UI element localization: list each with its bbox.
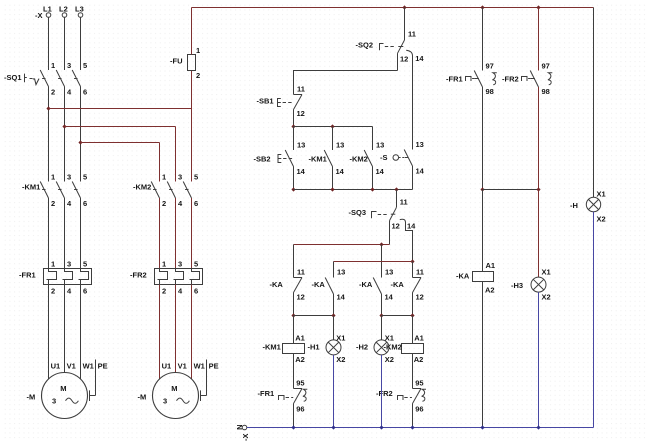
svg-text:6: 6	[83, 287, 87, 296]
svg-text:1: 1	[51, 260, 55, 269]
svg-text:-KA: -KA	[270, 280, 284, 289]
svg-text:13: 13	[416, 140, 424, 149]
indicator lamp -H1 X1-X2	[326, 316, 345, 365]
svg-text:-KM2: -KM2	[133, 183, 151, 192]
wire L2 phase down to KM1 pole 3	[64, 87, 66, 182]
svg-text:97: 97	[542, 62, 550, 71]
svg-text:L3: L3	[75, 5, 84, 14]
svg-text:5: 5	[83, 260, 87, 269]
svg-text:14: 14	[385, 293, 394, 302]
wire L3 to SQ1	[80, 17, 82, 70]
wire H1 to N (blue)	[333, 355, 335, 428]
svg-text:1: 1	[162, 173, 166, 182]
wire top rail down to lamp H	[593, 8, 595, 198]
svg-text:13: 13	[337, 268, 345, 277]
svg-text:-FU: -FU	[170, 57, 183, 66]
svg-text:97: 97	[486, 62, 494, 71]
svg-text:-FR1: -FR1	[19, 271, 36, 280]
contactor -KM2 main contacts (3-pole)	[133, 173, 198, 209]
relay contact -KA 13-14 (col2 NO)	[312, 268, 346, 316]
node/junction L1 feeder tap + wire to fuse and KM2	[46, 106, 191, 110]
limit switch -SQ3 NC contact 11-12 with actuator	[349, 190, 417, 245]
indicator lamp -H3 X1-X2	[511, 190, 551, 302]
wires FR2 to motor M2	[160, 285, 192, 380]
svg-text:-KA: -KA	[456, 272, 470, 281]
svg-text:5: 5	[83, 173, 87, 182]
motor M2 terminal labels U1 V1 W1 PE	[162, 362, 219, 371]
svg-text:-KM1: -KM1	[22, 183, 40, 192]
svg-text:-FR1: -FR1	[446, 75, 463, 84]
svg-text:-H: -H	[570, 201, 578, 210]
svg-text:5: 5	[194, 260, 198, 269]
relay contact -KA 11-12 (col4 NC)	[391, 268, 424, 316]
svg-text:A2: A2	[414, 355, 424, 364]
relay contact -KA 13-14 (col3 NO)	[359, 268, 394, 316]
svg-text:13: 13	[376, 141, 384, 150]
svg-text:M: M	[171, 384, 177, 393]
svg-text:-SQ1: -SQ1	[4, 73, 22, 82]
terminal L3	[75, 5, 84, 18]
svg-text:2: 2	[51, 199, 55, 208]
node junctions on neutral rail	[291, 425, 540, 429]
svg-text:-M: -M	[138, 393, 147, 402]
svg-text:-X: -X	[241, 434, 250, 442]
svg-text:1: 1	[51, 61, 55, 70]
svg-text:6: 6	[83, 88, 87, 97]
svg-text:3: 3	[52, 397, 56, 406]
svg-text:-H1: -H1	[308, 343, 320, 352]
svg-text:-SB2: -SB2	[254, 155, 271, 164]
motor -M (M1, 3~)	[27, 373, 88, 419]
wire bus col3-col4 with junctions	[379, 313, 414, 317]
wire branch bus lower with junctions	[291, 187, 412, 191]
svg-text:14: 14	[407, 222, 416, 231]
wire SQ3-12 bus to KA contacts upper-left	[294, 245, 390, 278]
svg-text:98: 98	[486, 87, 494, 96]
svg-text:A1: A1	[295, 334, 305, 343]
svg-text:14: 14	[416, 167, 425, 176]
svg-text:6: 6	[194, 287, 198, 296]
main switch -SQ1 (3-pole)	[4, 61, 87, 97]
wires KM1 to FR1	[49, 198, 81, 269]
svg-text:14: 14	[376, 167, 385, 176]
svg-text:11: 11	[408, 30, 416, 39]
node/junction L2 feeder tap + wire to KM2	[62, 124, 175, 128]
svg-text:X1: X1	[385, 334, 394, 343]
auxiliary contact -KM1 13-14	[309, 127, 345, 190]
limit switch -SQ2 NC contact 11-12 with actuator	[356, 8, 425, 71]
svg-text:11: 11	[400, 198, 408, 207]
node junction upper bus / KM1 aux	[330, 124, 334, 128]
wire feeder drop to KM2 pole 3	[175, 127, 177, 182]
wire H2 to N (blue)	[381, 355, 383, 428]
svg-text:6: 6	[194, 199, 198, 208]
svg-text:3: 3	[178, 260, 182, 269]
svg-text:11: 11	[297, 85, 305, 94]
svg-text:A1: A1	[414, 334, 424, 343]
svg-text:L1: L1	[43, 5, 52, 14]
svg-text:-SB1: -SB1	[257, 97, 274, 106]
motor -M (M2, 3~)	[138, 373, 199, 419]
svg-text:14: 14	[336, 167, 345, 176]
svg-text:-KA: -KA	[312, 280, 326, 289]
svg-text:X2: X2	[385, 355, 394, 364]
svg-text:W1: W1	[194, 362, 205, 371]
wire H3 to N (blue)	[538, 292, 540, 427]
svg-text:-FR1: -FR1	[258, 389, 275, 398]
contactor coil -KM1 A1-A2	[263, 316, 320, 389]
svg-text:6: 6	[83, 199, 87, 208]
svg-text:98: 98	[542, 87, 550, 96]
wire bus col1-col2 with junctions	[291, 313, 335, 317]
relay coil -KA A1-A2	[456, 190, 495, 428]
svg-text:12: 12	[392, 222, 400, 231]
svg-text:V1: V1	[178, 362, 187, 371]
thermal relay contact -FR1 95-96 NC	[258, 379, 308, 428]
svg-text:2: 2	[162, 287, 166, 296]
svg-text:1: 1	[51, 173, 55, 182]
wire L1 to SQ1	[48, 17, 50, 70]
svg-text:1: 1	[196, 46, 200, 55]
svg-text:-FR2: -FR2	[376, 389, 393, 398]
svg-text:PE: PE	[209, 362, 219, 371]
stop pushbutton -SB1 NC 11-12	[257, 85, 305, 127]
contactor coil -KM2 A1-A2	[384, 316, 424, 389]
svg-text:12: 12	[416, 293, 424, 302]
wire L1 phase down to KM1 pole 1	[48, 87, 50, 182]
svg-text:A1: A1	[486, 261, 496, 270]
svg-text:96: 96	[296, 405, 304, 414]
svg-text:-SQ2: -SQ2	[356, 41, 374, 50]
svg-text:-H3: -H3	[511, 281, 523, 290]
svg-text:-KA: -KA	[391, 280, 405, 289]
wire L2 to SQ1	[64, 17, 66, 70]
svg-text:2: 2	[51, 287, 55, 296]
svg-text:L2: L2	[59, 5, 68, 14]
svg-text:X1: X1	[597, 190, 606, 199]
svg-text:M: M	[60, 384, 66, 393]
wire drop to KM2 pole 5	[191, 109, 193, 182]
svg-text:-KM2: -KM2	[350, 155, 368, 164]
indicator lamp -H X1-X2	[570, 190, 606, 224]
wire bus FR 98 junctions	[480, 187, 540, 191]
svg-text:A2: A2	[295, 355, 305, 364]
start pushbutton -SB2 NO 13-14	[254, 127, 306, 190]
thermal relay contact -FR2 97-98 NO	[502, 8, 552, 190]
wire L3 phase down to KM1 pole 5	[80, 87, 82, 182]
svg-text:5: 5	[194, 173, 198, 182]
svg-text:U1: U1	[51, 362, 61, 371]
svg-text:1: 1	[162, 260, 166, 269]
svg-text:3: 3	[67, 173, 71, 182]
svg-text:-SQ3: -SQ3	[349, 208, 367, 217]
svg-text:95: 95	[296, 379, 304, 388]
wire top control rail L	[192, 7, 594, 9]
node/junction L3 feeder tap + wire to KM2	[78, 140, 159, 144]
svg-text:2: 2	[196, 71, 200, 80]
svg-text:12: 12	[297, 109, 305, 118]
wire H to N (blue)	[593, 212, 595, 428]
svg-text:A2: A2	[485, 286, 495, 295]
wires FR1 to motor M1	[49, 285, 81, 380]
thermal relay contact -FR2 95-96 NC	[376, 379, 426, 428]
svg-text:X2: X2	[597, 215, 606, 224]
svg-text:-M: -M	[27, 393, 36, 402]
terminal L2	[59, 5, 68, 18]
svg-text:13: 13	[297, 141, 305, 150]
wire SQ3 contact 14 down to KA bus	[400, 219, 413, 261]
svg-text:X2: X2	[542, 293, 551, 302]
svg-text:3: 3	[163, 397, 167, 406]
svg-text:-KA: -KA	[359, 280, 373, 289]
node junction top rail / SQ2	[402, 5, 406, 9]
terminal -X L1	[35, 5, 52, 21]
svg-text:X2: X2	[336, 355, 345, 364]
node junction SB1/SB2 + wire branch bus upper	[291, 124, 372, 128]
selector switch -S NO 13-14	[380, 140, 425, 190]
wire drop to KA contact 11 (col4)	[412, 262, 414, 278]
svg-text:2: 2	[51, 88, 55, 97]
indicator lamp -H2 X1-X2	[356, 316, 394, 365]
svg-text:14: 14	[415, 54, 424, 63]
fuse -FU with pins 1,2	[170, 8, 200, 109]
svg-text:95: 95	[415, 379, 423, 388]
wire SQ2 contact 14 down to selector -S	[406, 50, 412, 149]
thermal overload relay -FR1 (3-pole heater)	[19, 260, 92, 296]
motor M1 terminal labels U1 V1 W1 PE	[51, 362, 108, 371]
svg-text:11: 11	[416, 268, 424, 277]
svg-text:-X: -X	[35, 11, 43, 20]
svg-text:14: 14	[297, 167, 306, 176]
svg-text:11: 11	[297, 268, 305, 277]
svg-text:2: 2	[162, 199, 166, 208]
svg-text:-KM2: -KM2	[384, 343, 402, 352]
svg-text:X1: X1	[542, 268, 551, 277]
svg-text:12: 12	[297, 293, 305, 302]
node junction + wire drop to KA contact 13 (col3)	[379, 242, 383, 277]
node junction top rail / FR2 97	[536, 5, 540, 9]
thermal overload relay -FR2 (3-pole heater)	[130, 260, 203, 296]
svg-text:-FR2: -FR2	[130, 271, 147, 280]
node junction top rail / FR1 97	[480, 5, 484, 9]
svg-text:-KM1: -KM1	[309, 155, 327, 164]
svg-text:U1: U1	[162, 362, 172, 371]
auxiliary contact -KM2 13-14	[350, 127, 385, 190]
relay contact -KA 11-12 (col1 NC)	[270, 268, 305, 316]
svg-text:13: 13	[336, 141, 344, 150]
svg-text:13: 13	[385, 268, 393, 277]
contactor -KM1 main contacts (3-pole)	[22, 173, 87, 209]
thermal relay contact -FR1 97-98 NO	[446, 8, 497, 190]
svg-text:N: N	[235, 424, 244, 429]
svg-text:12: 12	[400, 55, 408, 64]
svg-text:PE: PE	[98, 362, 108, 371]
wire neutral rail N (blue)	[247, 427, 594, 429]
svg-text:-S: -S	[380, 153, 388, 162]
svg-text:5: 5	[83, 61, 87, 70]
wires KM2 to FR2	[160, 198, 192, 269]
svg-text:V1: V1	[67, 362, 76, 371]
terminal -X N (neutral)	[235, 424, 250, 441]
wire SQ2-12 to SB1	[294, 71, 398, 95]
PE conductor to motor M2 frame	[201, 360, 207, 402]
svg-text:3: 3	[178, 173, 182, 182]
svg-text:X1: X1	[336, 334, 345, 343]
node junction + wire KA bus 14-branch	[334, 259, 415, 277]
svg-text:14: 14	[337, 293, 346, 302]
wire feeder drop to KM2 pole 1	[159, 143, 161, 182]
svg-text:-H2: -H2	[356, 343, 368, 352]
svg-text:3: 3	[67, 260, 71, 269]
PE conductor to motor M1 frame	[90, 360, 96, 402]
svg-text:-FR2: -FR2	[502, 75, 519, 84]
svg-text:96: 96	[415, 405, 423, 414]
svg-text:3: 3	[67, 61, 71, 70]
svg-text:W1: W1	[83, 362, 94, 371]
svg-text:-KM1: -KM1	[263, 343, 281, 352]
